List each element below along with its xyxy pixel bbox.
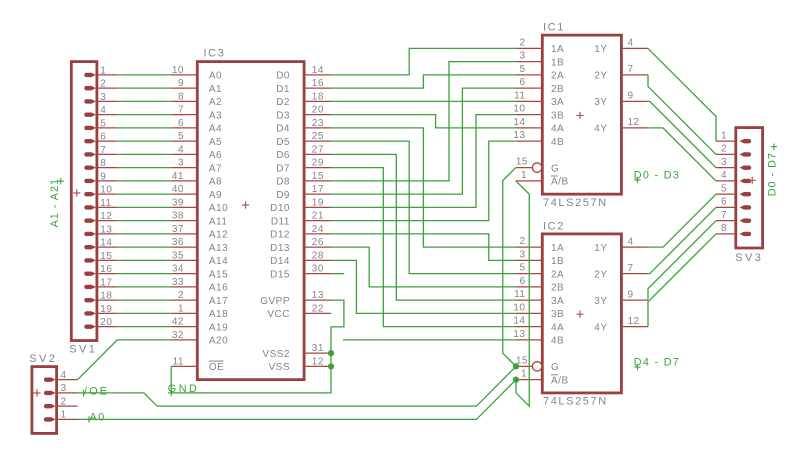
svg-text:A4: A4 — [209, 124, 222, 135]
wire net A15 (SV1 pin 15 to IC3 A14) — [117, 259, 171, 261]
IC3 origin cross — [242, 201, 249, 208]
IC3 pin VSS (pin 12) — [304, 365, 331, 367]
IC3 pin A14 (pin 35) — [171, 259, 197, 261]
IC2 pin A/B select (pin 1) — [516, 379, 543, 381]
SV1 box outline — [71, 62, 97, 341]
svg-text:3: 3 — [721, 157, 727, 168]
SV1 pin 16 — [97, 273, 117, 275]
IC1 pin 4Y (pin 12) — [621, 127, 648, 129]
svg-text:41: 41 — [172, 171, 184, 182]
wire net D2 (IC3 D2 to IC1) — [331, 100, 516, 102]
svg-text:4A: 4A — [551, 124, 564, 135]
svg-text:3B: 3B — [551, 110, 564, 121]
SV3 pin 8 — [716, 233, 736, 235]
IC1 pin 4A (pin 14) — [516, 127, 543, 129]
svg-text:4: 4 — [721, 170, 727, 181]
svg-text:VCC: VCC — [267, 309, 290, 320]
svg-text:4B: 4B — [551, 137, 564, 148]
svg-text:14: 14 — [513, 117, 525, 128]
svg-text:7: 7 — [721, 210, 727, 221]
IC3 pin A9 (pin 40) — [171, 193, 197, 195]
IC3 pin A10 (pin 39) — [171, 206, 197, 208]
svg-text:1: 1 — [100, 65, 106, 76]
svg-text:4: 4 — [100, 105, 106, 116]
svg-text:2: 2 — [519, 37, 525, 48]
IC3 pin A19 (pin 42) — [171, 326, 197, 328]
svg-text:4Y: 4Y — [594, 124, 607, 135]
IC3 pin D14 (pin 28) — [304, 259, 331, 261]
svg-text:SV2: SV2 — [29, 353, 57, 365]
wire net A11 (SV1 pin 11 to IC3 A10) — [117, 206, 171, 208]
SV1 pin 4 — [97, 114, 117, 116]
svg-text:D8: D8 — [276, 177, 290, 188]
IC3 pin A8 (pin 41) — [171, 180, 197, 182]
svg-text:4A: 4A — [551, 322, 564, 333]
svg-text:14: 14 — [100, 238, 112, 249]
IC1 pin 2B (pin 6) — [516, 87, 543, 89]
wire net D0 out (IC1 1Y to SV3 pin 1) — [648, 48, 716, 141]
svg-text:33: 33 — [172, 277, 184, 288]
IC1 pin 1A (pin 2) — [516, 47, 543, 49]
IC3 pin D4 (pin 23) — [304, 127, 331, 129]
svg-text:D14: D14 — [270, 256, 290, 267]
net label A1 - A21 origin cross — [58, 178, 64, 184]
svg-text:D3: D3 — [276, 110, 290, 121]
svg-text:GVPP: GVPP — [260, 296, 290, 307]
wire net D0 (IC3 D0 to IC1) — [331, 48, 516, 75]
svg-text:10: 10 — [513, 302, 525, 313]
svg-text:1: 1 — [721, 130, 727, 141]
wire net D11 (IC3 D11 to IC1) — [331, 141, 516, 221]
svg-text:D4: D4 — [276, 124, 290, 135]
IC2 pin 2Y (pin 7) — [621, 273, 648, 275]
svg-text:29: 29 — [312, 158, 324, 169]
net label D0 - D7 origin cross — [771, 144, 777, 150]
svg-text:D9: D9 — [276, 190, 290, 201]
wire net A7 (SV1 pin 7 to IC3 A6) — [117, 153, 171, 155]
svg-text:1Y: 1Y — [594, 44, 607, 55]
SV1 pin 5 — [97, 127, 117, 129]
svg-text:17: 17 — [100, 277, 112, 288]
SV2 pin 3 — [57, 392, 78, 394]
svg-text:9: 9 — [100, 171, 106, 182]
net label A0 origin cross — [86, 416, 92, 422]
IC1 pin 3B (pin 10) — [516, 114, 543, 116]
svg-text:D2: D2 — [276, 97, 290, 108]
svg-text:A19: A19 — [209, 322, 228, 333]
svg-text:7: 7 — [628, 64, 634, 75]
svg-text:32: 32 — [172, 330, 184, 341]
svg-text:12: 12 — [628, 316, 640, 327]
IC3 pin A0 (pin 10) — [171, 74, 197, 76]
junction /OE at IC2 G pin — [513, 363, 519, 369]
SV3 pin 7 — [716, 220, 736, 222]
svg-text:A/B: A/B — [551, 177, 569, 188]
SV1 pin 10 — [97, 193, 117, 195]
wire net D12 (IC3 D12 to IC2) — [331, 234, 516, 261]
wire net D8 (IC3 D8 to IC1) — [331, 62, 516, 181]
svg-text:IC2: IC2 — [543, 221, 565, 233]
SV1 pin 14 — [97, 246, 117, 248]
IC1 pin 1Y (pin 4) — [621, 47, 648, 49]
SV3 box outline — [736, 128, 763, 248]
svg-text:1B: 1B — [551, 57, 564, 68]
IC3 pin OE (pin 11, active low) — [171, 365, 197, 367]
svg-text:4: 4 — [178, 144, 184, 155]
wire net D4 out (IC2 1Y to SV3 pin 5) — [648, 194, 716, 247]
svg-text:10: 10 — [513, 104, 525, 115]
wire net D5 out (IC2 2Y to SV3 pin 6) — [648, 207, 716, 273]
svg-text:A17: A17 — [209, 296, 228, 307]
IC3 pin A15 (pin 34) — [171, 273, 197, 275]
junction GND at IC3 VSS2 pin — [328, 350, 334, 356]
IC2 pin 1A (pin 2) — [516, 246, 543, 248]
svg-text:G: G — [551, 163, 559, 174]
svg-text:19: 19 — [312, 197, 324, 208]
IC3 pin D13 (pin 26) — [304, 246, 331, 248]
SV2 pin 1 — [57, 418, 78, 420]
svg-text:2A: 2A — [551, 269, 564, 280]
IC3 box outline — [197, 62, 304, 380]
SV2 pin 4 — [57, 379, 78, 381]
svg-text:11: 11 — [173, 356, 184, 367]
IC2 pin G (pin 15, enable, inverting bubble) — [516, 365, 533, 367]
svg-text:15: 15 — [312, 171, 324, 182]
svg-text:A2: A2 — [209, 97, 222, 108]
IC1 pin A/B select (pin 1) — [516, 180, 543, 182]
svg-text:9: 9 — [628, 91, 634, 102]
IC3 pin D1 (pin 16) — [304, 87, 331, 89]
IC1 pin 3A (pin 11) — [516, 100, 543, 102]
SV1 pin 3 — [97, 100, 117, 102]
svg-text:3A: 3A — [551, 97, 564, 108]
IC3 pin A17 (pin 2) — [171, 299, 197, 301]
svg-text:D15: D15 — [270, 269, 290, 280]
IC1 pin 1B (pin 3) — [516, 61, 543, 63]
connector SV2 (4-pin header, control) — [29, 353, 77, 434]
svg-text:9: 9 — [628, 289, 634, 300]
svg-text:D7: D7 — [276, 163, 290, 174]
svg-text:12: 12 — [100, 211, 112, 222]
IC3 EPROM 27C160 (16-bit) — [171, 48, 331, 380]
svg-text:38: 38 — [172, 211, 184, 222]
SV3 pin 6 — [716, 206, 736, 208]
svg-text:D6: D6 — [276, 150, 290, 161]
svg-text:1Y: 1Y — [594, 243, 607, 254]
wire net D7 out (IC2 4Y to SV3 pin 8) — [648, 234, 716, 327]
svg-text:A3: A3 — [209, 110, 222, 121]
svg-text:3: 3 — [100, 92, 106, 103]
wire net D5 (IC3 D5 to IC2) — [331, 141, 516, 274]
IC3 pin A11 (pin 38) — [171, 220, 197, 222]
svg-text:D13: D13 — [270, 243, 290, 254]
svg-text:2Y: 2Y — [594, 269, 607, 280]
wire net A16 (SV1 pin 16 to IC3 A15) — [117, 273, 171, 275]
wire net A19 (SV1 pin 19 to IC3 A18) — [117, 312, 171, 314]
svg-text:13: 13 — [100, 224, 112, 235]
IC2 pin 4Y (pin 12) — [621, 326, 648, 328]
svg-text:OE: OE — [209, 362, 224, 373]
IC3 pin D2 (pin 18) — [304, 100, 331, 102]
IC3 pin D11 (pin 21) — [304, 220, 331, 222]
svg-text:31: 31 — [312, 343, 324, 354]
svg-text:25: 25 — [312, 131, 324, 142]
svg-text:21: 21 — [312, 211, 324, 222]
svg-text:74LS257N: 74LS257N — [543, 396, 608, 408]
svg-text:27: 27 — [312, 144, 324, 155]
net label GND origin cross — [168, 390, 174, 396]
svg-text:D11: D11 — [271, 216, 290, 227]
svg-text:35: 35 — [172, 250, 184, 261]
IC3 pin D5 (pin 25) — [304, 140, 331, 142]
wire net D3 out (IC1 4Y to SV3 pin 4) — [648, 128, 716, 181]
SV2 origin cross — [33, 389, 40, 396]
svg-text:2: 2 — [721, 144, 727, 155]
svg-text:13: 13 — [513, 329, 525, 340]
svg-text:IC3: IC3 — [204, 48, 226, 60]
IC3 pin D15 (pin 30) — [304, 273, 331, 275]
svg-text:D0: D0 — [276, 71, 290, 82]
svg-text:6: 6 — [519, 276, 525, 287]
svg-text:22: 22 — [312, 303, 324, 314]
svg-text:2: 2 — [61, 396, 67, 407]
wire net A5 (SV1 pin 5 to IC3 A4) — [117, 127, 171, 129]
svg-text:8: 8 — [721, 223, 727, 234]
IC3 pin A12 (pin 37) — [171, 233, 197, 235]
svg-text:3: 3 — [519, 249, 525, 260]
IC2 pin 1Y (pin 4) — [621, 246, 648, 248]
svg-text:37: 37 — [172, 224, 184, 235]
svg-text:4: 4 — [61, 370, 67, 381]
SV3 pin 3 — [716, 167, 736, 169]
wire net A4 (SV1 pin 4 to IC3 A3) — [117, 114, 171, 116]
wire net D2 out (IC1 3Y to SV3 pin 3) — [648, 101, 716, 167]
wire net GND (IC3 OE, VSS2, VSS and GVPP tied to ground) — [171, 300, 344, 393]
SV1 origin cross — [73, 189, 80, 196]
wire net D15 stub from IC3 (ends mid-air as in original) — [331, 273, 344, 275]
wire net D10 (IC3 D10 to IC1) — [331, 115, 516, 208]
svg-text:3B: 3B — [551, 309, 564, 320]
wire net D13 (IC3 D13 to IC2) — [331, 247, 516, 287]
svg-text:24: 24 — [312, 224, 324, 235]
SV1 pin 15 — [97, 259, 117, 261]
svg-text:A1: A1 — [209, 84, 222, 95]
svg-text:D4 - D7: D4 - D7 — [634, 357, 680, 369]
wire net A17 (SV1 pin 17 to IC3 A16) — [117, 286, 171, 288]
svg-text:3: 3 — [61, 383, 67, 394]
svg-text:1B: 1B — [551, 256, 564, 267]
SV1 pin 6 — [97, 140, 117, 142]
wire net A13 (SV1 pin 13 to IC3 A12) — [117, 233, 171, 235]
svg-text:5: 5 — [178, 131, 184, 142]
svg-text:D1: D1 — [276, 84, 290, 95]
svg-text:A12: A12 — [209, 230, 228, 241]
wire net A0 (SV2 pin 1 to IC2 A/B select) — [78, 380, 517, 420]
IC1 origin cross — [576, 112, 583, 119]
svg-text:23: 23 — [312, 118, 324, 129]
SV1 pin 8 — [97, 167, 117, 169]
IC1 box outline — [542, 35, 621, 194]
IC3 pin D8 (pin 15) — [304, 180, 331, 182]
svg-text:20: 20 — [312, 105, 324, 116]
svg-text:11: 11 — [514, 90, 525, 101]
IC2 quad 2-to-1 multiplexer 74LS257N — [513, 221, 648, 408]
svg-text:40: 40 — [172, 184, 184, 195]
svg-text:11: 11 — [514, 289, 525, 300]
SV1 pin 20 — [97, 326, 117, 328]
IC3 pin A5 (pin 5) — [171, 140, 197, 142]
junction GND at IC3 VSS pin — [328, 363, 334, 369]
wire net A2 (SV1 pin 2 to IC3 A1) — [117, 87, 171, 89]
SV1 pin 17 — [97, 286, 117, 288]
svg-text:A6: A6 — [209, 150, 222, 161]
IC3 pin D12 (pin 24) — [304, 233, 331, 235]
svg-text:9: 9 — [178, 78, 184, 89]
svg-text:A8: A8 — [209, 177, 222, 188]
svg-text:/OE: /OE — [84, 385, 109, 397]
svg-text:4: 4 — [628, 236, 634, 247]
svg-text:1: 1 — [61, 410, 67, 421]
svg-text:18: 18 — [312, 91, 324, 102]
IC3 pin D9 (pin 17) — [304, 193, 331, 195]
IC3 pin D0 (pin 14) — [304, 74, 331, 76]
svg-text:17: 17 — [312, 184, 324, 195]
svg-text:5: 5 — [100, 118, 106, 129]
SV3 origin cross — [749, 177, 756, 184]
IC2 pin 3Y (pin 9) — [621, 299, 648, 301]
wire net A6 (SV1 pin 6 to IC3 A5) — [117, 140, 171, 142]
svg-text:2: 2 — [178, 290, 184, 301]
svg-text:6: 6 — [178, 118, 184, 129]
svg-text:A13: A13 — [209, 243, 228, 254]
svg-text:13: 13 — [312, 290, 324, 301]
svg-text:3: 3 — [519, 51, 525, 62]
wire net D6 (IC3 D6 to IC2) — [331, 154, 516, 300]
wire net A12 (SV1 pin 12 to IC3 A11) — [117, 220, 171, 222]
IC3 pin A3 (pin 7) — [171, 114, 197, 116]
svg-text:A5: A5 — [209, 137, 222, 148]
IC3 pin D6 (pin 27) — [304, 153, 331, 155]
junction A0 at IC2 A/B pin — [513, 377, 519, 383]
IC1 pin G (pin 15, enable, inverting bubble) — [516, 167, 533, 169]
svg-text:2Y: 2Y — [594, 71, 607, 82]
svg-text:26: 26 — [312, 237, 324, 248]
svg-text:74LS257N: 74LS257N — [543, 197, 608, 209]
svg-text:4B: 4B — [551, 336, 564, 347]
IC3 pin A7 (pin 3) — [171, 167, 197, 169]
IC3 pin A13 (pin 36) — [171, 246, 197, 248]
svg-text:16: 16 — [312, 78, 324, 89]
IC2 pin 2B (pin 6) — [516, 286, 543, 288]
SV1 pin 18 — [97, 299, 117, 301]
SV3 pin 4 — [716, 180, 736, 182]
svg-text:A/B: A/B — [551, 375, 569, 386]
IC1 pin 4B (pin 13) — [516, 140, 543, 142]
IC3 pin A6 (pin 4) — [171, 153, 197, 155]
svg-text:VSS: VSS — [268, 362, 290, 373]
svg-text:10: 10 — [172, 65, 184, 76]
svg-text:5: 5 — [721, 183, 727, 194]
IC3 pin A20 (pin 32) — [171, 339, 197, 341]
wire net A14 (SV1 pin 14 to IC3 A13) — [117, 246, 171, 248]
SV1 pin 13 — [97, 233, 117, 235]
wire net D1 out (IC1 2Y to SV3 pin 2) — [648, 75, 716, 154]
svg-text:5: 5 — [519, 64, 525, 75]
wire net A20 (SV1 pin 20 to IC3 A19) — [117, 326, 171, 328]
svg-text:39: 39 — [172, 197, 184, 208]
svg-text:19: 19 — [100, 304, 112, 315]
IC3 pin A4 (pin 6) — [171, 127, 197, 129]
svg-text:28: 28 — [312, 250, 324, 261]
wire net A3 (SV1 pin 3 to IC3 A2) — [117, 100, 171, 102]
SV1 pin 2 — [97, 87, 117, 89]
IC2 pin 3B (pin 10) — [516, 312, 543, 314]
wire net D14 (IC3 D14 to IC2) — [331, 260, 516, 313]
svg-text:7: 7 — [178, 105, 184, 116]
IC1 pin 2Y (pin 7) — [621, 74, 648, 76]
wire net /OE (SV2 pin 3 to IC1 G and IC2 G) — [78, 168, 517, 407]
svg-text:13: 13 — [513, 130, 525, 141]
IC2 pin 2A (pin 5) — [516, 273, 543, 275]
SV2 pin 2 — [57, 405, 78, 407]
svg-text:2B: 2B — [551, 283, 564, 294]
svg-text:1A: 1A — [551, 44, 564, 55]
svg-text:A7: A7 — [209, 163, 222, 174]
svg-text:6: 6 — [721, 197, 727, 208]
svg-text:15: 15 — [516, 157, 528, 168]
SV2 box outline — [32, 367, 57, 434]
svg-text:1: 1 — [521, 170, 527, 181]
svg-text:A0: A0 — [209, 71, 222, 82]
svg-text:IC1: IC1 — [543, 22, 565, 34]
net label D4 - D7 origin cross — [634, 364, 640, 370]
SV3 pin 1 — [716, 140, 736, 142]
svg-text:A18: A18 — [209, 309, 228, 320]
IC1 pin 3Y (pin 9) — [621, 100, 648, 102]
svg-text:6: 6 — [519, 77, 525, 88]
svg-text:4Y: 4Y — [594, 322, 607, 333]
svg-text:SV3: SV3 — [735, 252, 763, 264]
svg-text:7: 7 — [100, 145, 106, 156]
svg-text:SV1: SV1 — [69, 343, 97, 355]
SV1 pin 11 — [97, 206, 117, 208]
svg-text:3Y: 3Y — [594, 97, 607, 108]
svg-text:A9: A9 — [209, 190, 222, 201]
IC1 quad 2-to-1 multiplexer 74LS257N — [513, 22, 648, 210]
svg-text:36: 36 — [172, 237, 184, 248]
IC2 pin 1B (pin 3) — [516, 259, 543, 261]
SV1 pin 12 — [97, 220, 117, 222]
svg-text:A11: A11 — [209, 216, 228, 227]
svg-text:8: 8 — [178, 91, 184, 102]
svg-text:1: 1 — [178, 303, 184, 314]
IC3 pin VCC (pin 22) — [304, 312, 331, 314]
svg-text:VSS2: VSS2 — [262, 349, 290, 360]
svg-text:A16: A16 — [209, 283, 228, 294]
wire net A8 (SV1 pin 8 to IC3 A7) — [117, 167, 171, 169]
svg-text:A10: A10 — [209, 203, 228, 214]
wire net D4 (IC3 D4 to IC2) — [331, 128, 516, 247]
wire net A1 (SV1 pin 1 to IC3 A0) — [117, 74, 171, 76]
wire net D15 into IC2 4B — [343, 339, 516, 341]
svg-text:G: G — [551, 362, 559, 373]
SV1 pin 19 — [97, 312, 117, 314]
wire net D6 out (IC2 3Y to SV3 pin 7) — [648, 221, 716, 301]
svg-text:D10: D10 — [270, 203, 290, 214]
svg-text:10: 10 — [100, 185, 112, 196]
IC3 pin A18 (pin 1) — [171, 312, 197, 314]
IC3 pin D10 (pin 19) — [304, 206, 331, 208]
